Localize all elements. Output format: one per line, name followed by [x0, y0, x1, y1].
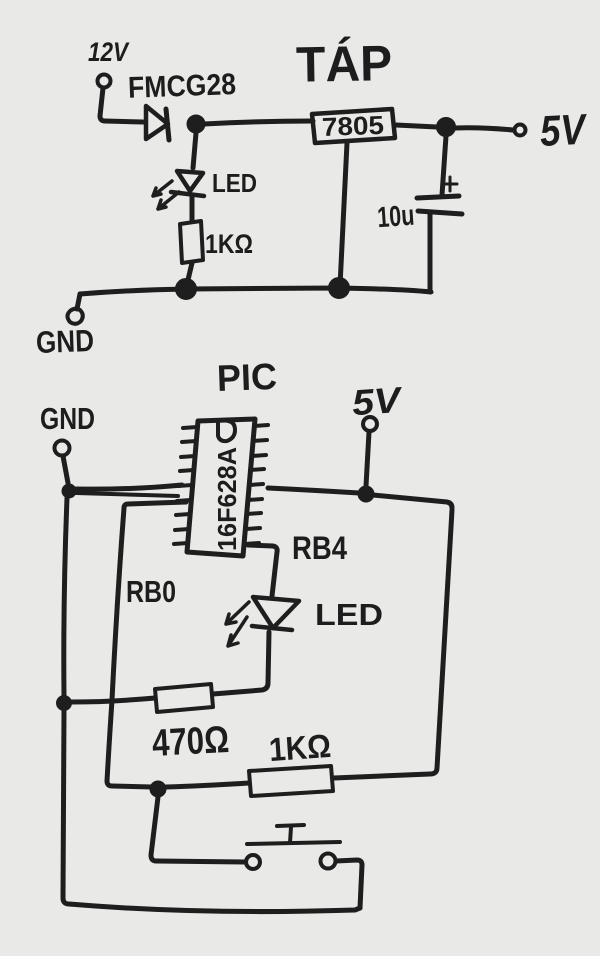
bottom rail wire: [63, 710, 360, 912]
diode D1 FMCG28: [146, 106, 169, 140]
junction 5V node: [359, 487, 374, 502]
wire 5V node up to terminal: [366, 432, 369, 486]
svg-text:GND: GND: [35, 323, 94, 360]
wire button node down to switch left: [151, 797, 245, 862]
wire RB0 from IC pin down to button node: [107, 502, 186, 787]
junction 470 node: [57, 696, 71, 710]
terminal 5V: [515, 125, 526, 136]
LED D2 indicator: [153, 171, 204, 209]
wire 5V node to right corner: [373, 495, 452, 508]
svg-text:16F628A: 16F628A: [212, 447, 242, 551]
svg-text:FMCG28: FMCG28: [128, 68, 237, 105]
terminal GND: [68, 309, 83, 324]
wire junction to resistor 470: [71, 698, 155, 702]
wire cathode junction down to LED: [193, 133, 196, 168]
svg-text:1KΩ: 1KΩ: [205, 229, 253, 259]
regulator U2 7805: [312, 109, 395, 143]
wire 470 to LED cathode: [213, 632, 269, 694]
wire 5V junction to capacitor: [442, 136, 446, 195]
wire rail to GND terminal: [77, 294, 80, 309]
terminal GND lower: [55, 441, 70, 456]
IC left pins: [174, 427, 197, 544]
IC U1 PIC16F628A: [187, 419, 255, 556]
wire LED to resistor R1: [190, 196, 195, 221]
wire GND terminal to GND node: [63, 456, 68, 483]
resistor R1 1K: [180, 221, 203, 263]
wire GND node down left side: [64, 498, 67, 697]
junction ground rail at R1: [176, 279, 196, 299]
wire capacitor to ground rail: [428, 214, 433, 291]
resistor R3 1K: [249, 766, 333, 796]
resistor R2 470: [155, 684, 213, 712]
svg-text:470Ω: 470Ω: [151, 719, 230, 765]
wire 1K to right side rail up to 5V: [334, 510, 452, 778]
junction ground rail at 7805: [329, 278, 349, 298]
wire RB4 from IC to LED anode: [248, 545, 277, 596]
wire button node to resistor 1K: [166, 783, 249, 787]
wire junction to 5V terminal: [455, 128, 513, 130]
pushbutton S1: [246, 825, 340, 869]
svg-text:12V: 12V: [88, 37, 130, 67]
junction diode cathode node: [188, 116, 205, 133]
wire 12V terminal to diode anode: [100, 88, 143, 122]
wire R1 to ground rail: [187, 263, 192, 284]
svg-text:LED: LED: [315, 597, 383, 632]
svg-text:7805: 7805: [321, 110, 384, 142]
terminal 5V lower: [363, 417, 377, 431]
svg-text:5V: 5V: [351, 379, 405, 423]
svg-text:LED: LED: [212, 168, 257, 198]
wire IC right side to 5V node: [268, 488, 359, 493]
wire diode to 7805 input: [204, 121, 313, 124]
IC right pins: [245, 425, 268, 544]
junction 5V output node: [437, 118, 455, 136]
svg-text:RB4: RB4: [292, 530, 347, 566]
svg-text:TÁP: TÁP: [296, 35, 393, 93]
wire 7805 output to 5V junction: [396, 125, 437, 127]
svg-text:1KΩ: 1KΩ: [268, 727, 332, 768]
svg-text:GND: GND: [40, 401, 95, 436]
capacitor C1 10u: [417, 177, 462, 214]
wire switch right to bottom rail: [336, 860, 362, 908]
svg-text:PIC: PIC: [216, 356, 277, 399]
junction button node: [151, 782, 166, 797]
LED D3 output: [226, 597, 299, 646]
svg-text:10u: 10u: [376, 200, 415, 235]
terminal 12V: [98, 75, 111, 88]
wire GND node to IC second stroke: [76, 493, 178, 496]
wire 7805 ground pin to rail: [340, 143, 347, 286]
svg-text:RB0: RB0: [126, 574, 176, 609]
junction GND node: [63, 485, 76, 498]
svg-text:5V: 5V: [539, 106, 589, 156]
ground rail wire: [80, 288, 431, 294]
wire GND node to IC left side: [76, 485, 182, 489]
